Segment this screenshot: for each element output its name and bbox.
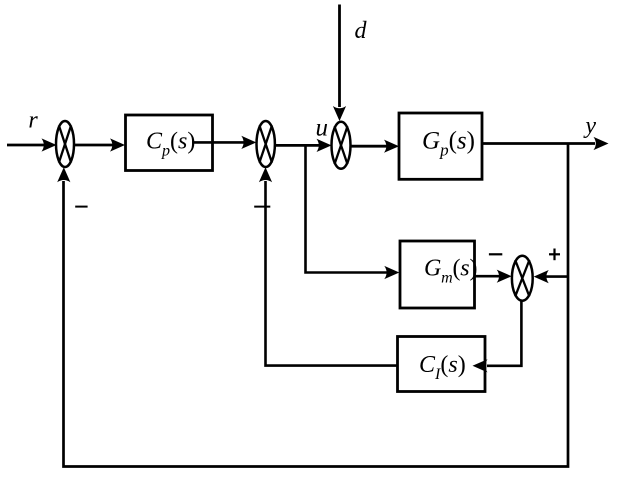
svg-text:u: u <box>316 114 329 141</box>
minus sign at S4 <box>489 253 502 255</box>
wire S3 to Gp block <box>351 140 400 153</box>
block Cp <box>126 115 213 171</box>
wire r input <box>7 138 57 151</box>
svg-text:Gm(s): Gm(s) <box>424 255 477 286</box>
wire S1 to Cp block <box>74 138 125 151</box>
summing junction S1 <box>56 121 74 167</box>
wire Gp to output y <box>482 137 609 150</box>
svg-text:d: d <box>355 18 368 44</box>
wire d input <box>333 5 346 122</box>
block Gp <box>399 113 482 179</box>
block CI <box>398 337 486 392</box>
wire Cp to S2 <box>192 136 256 149</box>
wire S4 down into CI <box>473 301 522 373</box>
summing junction S3 <box>332 122 351 169</box>
svg-text:CI(s): CI(s) <box>419 352 466 383</box>
wire output branch down to bottom left loop <box>64 144 569 467</box>
wire CI to S2 bottom <box>259 167 398 365</box>
minus sign at S1 <box>75 206 87 208</box>
wire Gm to S4 <box>475 270 512 283</box>
svg-text:y: y <box>583 113 596 139</box>
wire branch from u node down and into Gm <box>306 145 400 279</box>
wire S2 to S3 <box>275 139 332 152</box>
plus sign at S4 <box>549 249 560 261</box>
summing junction S4 <box>512 256 533 301</box>
summing junction S2 <box>257 121 275 167</box>
svg-text:Cp(s): Cp(s) <box>146 129 195 160</box>
svg-text:r: r <box>28 108 38 134</box>
arrowhead into S1 bottom <box>57 167 70 182</box>
wire tap to S4 right <box>534 270 568 283</box>
minus sign at S2 <box>254 206 270 208</box>
block Gm <box>400 241 475 308</box>
svg-text:Gp(s): Gp(s) <box>422 127 475 159</box>
